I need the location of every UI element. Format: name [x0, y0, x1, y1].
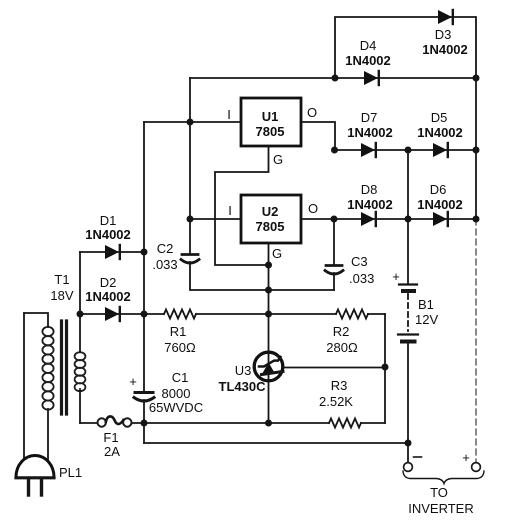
- diode D4 (inline on D4 row): [364, 71, 379, 85]
- svg-text:R1: R1: [170, 324, 187, 339]
- svg-text:18V: 18V: [50, 288, 73, 303]
- wire: from C2 bottom plate down and right along y=290 to C3: [190, 262, 334, 290]
- label T1: [54, 272, 69, 287]
- wire: U1 input row with stub to raw DC rail: [144, 121, 241, 123]
- svg-text:INVERTER: INVERTER: [408, 501, 474, 516]
- wire: U1 output right then down to D7 row: [301, 122, 335, 150]
- junction: secondary top / D1 branch: [77, 311, 84, 318]
- diode D8 (inline): [361, 212, 376, 226]
- U3 internal diode triangle: [262, 363, 275, 375]
- junction: U1/U2 ground tie node: [265, 262, 272, 269]
- fuse F1 body: [98, 416, 132, 426]
- value label 280ohm (R2): [326, 340, 358, 355]
- label D8: [361, 182, 378, 197]
- value label .033 (C3): [349, 271, 374, 286]
- battery B1 cell plates bottom: [398, 335, 418, 342]
- junction: D6 output / right rail: [473, 216, 480, 223]
- junction: D8/D6 node to battery: [405, 216, 412, 223]
- wire: right rail dash-dot segment down to + terminal: [475, 219, 477, 462]
- capacitor C1 electrolytic: [134, 393, 154, 402]
- value label 7805 (U2): [256, 219, 285, 234]
- svg-text:T1: T1: [54, 272, 69, 287]
- capacitor C3: [325, 266, 343, 275]
- junction: U1 input / vertical rail: [187, 119, 194, 126]
- U3 internal zener bar: [259, 357, 281, 367]
- pin label G (U2 ground): [272, 246, 282, 261]
- svg-text:U1: U1: [262, 109, 279, 124]
- diode D6 (inline): [433, 212, 448, 226]
- junction: U2 output / C3 branch: [331, 216, 338, 223]
- wire: U3 anode down to bottom row: [268, 380, 270, 423]
- svg-text:D3: D3: [435, 27, 452, 42]
- wire: raw DC rail x=144 (top half, down to C1 top plate): [143, 122, 145, 392]
- svg-text:D2: D2: [100, 275, 117, 290]
- label D3: [435, 27, 452, 42]
- wire: D4 row from (190,78) to right rail: [190, 77, 476, 79]
- transformer T1 secondary bottom lead: [79, 389, 81, 423]
- value label 1N4002 (D2): [85, 289, 131, 304]
- junction: battery minus / output minus: [405, 440, 412, 447]
- junction: divider tap node: [382, 364, 389, 371]
- svg-text:C2: C2: [157, 241, 174, 256]
- battery B1 bottom lead: [407, 344, 409, 443]
- label C3: [351, 254, 368, 269]
- svg-text:TL430C: TL430C: [219, 379, 267, 394]
- junction: ground net at R1/R2 row: [265, 311, 272, 318]
- svg-text:2.52K: 2.52K: [319, 394, 353, 409]
- wire: bottom return rail to battery minus: [144, 442, 408, 444]
- wire: plug left lead: [23, 313, 25, 462]
- polarity + label (B1): [392, 269, 400, 284]
- capacitor C3 branch wire from U2 output row down: [333, 219, 335, 264]
- junction: ground net crosses y=290 rail: [265, 287, 272, 294]
- svg-text:1N4002: 1N4002: [417, 197, 463, 212]
- value label TL430C (U3): [219, 379, 267, 394]
- transistor U3 shunt regulator circle: [254, 352, 283, 381]
- transformer T1 primary bottom lead: [47, 409, 49, 464]
- label R2: [333, 324, 350, 339]
- label TO (output): [430, 485, 448, 500]
- svg-text:D4: D4: [360, 38, 377, 53]
- svg-text:R2: R2: [333, 324, 350, 339]
- label D2: [100, 275, 117, 290]
- svg-text:760Ω: 760Ω: [164, 340, 196, 355]
- label B1: [418, 297, 434, 312]
- wire: U2 input row: [190, 218, 241, 220]
- pin label O (U2 output): [308, 201, 318, 216]
- value label 8000 (C1): [162, 386, 191, 401]
- pin label O (U1 output): [307, 105, 317, 120]
- svg-text:1N4002: 1N4002: [347, 197, 393, 212]
- junction: D7/D5 node: [405, 147, 412, 154]
- label R1: [170, 324, 187, 339]
- junction: D4 row / right rail: [473, 75, 480, 82]
- label D6: [430, 182, 447, 197]
- wire: bottom row y=423 from transformer to R3: [80, 422, 385, 424]
- value label 1N4002 (D6): [417, 197, 463, 212]
- label PL1: [59, 465, 82, 480]
- svg-text:8000: 8000: [162, 386, 191, 401]
- svg-text:1N4002: 1N4002: [417, 125, 463, 140]
- label R3: [331, 378, 348, 393]
- svg-text:D5: D5: [431, 110, 448, 125]
- svg-text:280Ω: 280Ω: [326, 340, 358, 355]
- pin label I (U1 input): [227, 107, 231, 122]
- svg-text:PL1: PL1: [59, 465, 82, 480]
- transformer T1 secondary winding: [75, 352, 86, 391]
- pin label I (U2 input): [228, 203, 232, 218]
- transformer T1 core bars: [62, 321, 67, 414]
- transformer T1 primary top lead: [24, 313, 48, 327]
- svg-text:1N4002: 1N4002: [85, 289, 131, 304]
- svg-text:C3: C3: [351, 254, 368, 269]
- junction: U2 input / input rail: [187, 216, 194, 223]
- polarity + label (C1): [129, 374, 137, 389]
- wire: D1 row y=252: [80, 251, 144, 253]
- junction: D1 output on raw rail: [141, 249, 148, 256]
- wire: ground net vertical from U2 G down to U3: [268, 243, 270, 353]
- plug PL1 prongs: [29, 479, 42, 495]
- svg-text:1N4002: 1N4002: [345, 53, 391, 68]
- value label 2A (F1): [104, 444, 120, 459]
- value label 1N4002 (D8): [347, 197, 393, 212]
- junction: raw DC rail on bottom row: [141, 420, 148, 427]
- wire: minus terminal drop: [407, 443, 409, 462]
- wire: U2 output / D8 / D6 row: [301, 218, 476, 220]
- diode D7 (inline): [361, 143, 376, 157]
- label INVERTER (output): [408, 501, 474, 516]
- resistor R3 zigzag: [329, 419, 361, 428]
- battery B1 cell plates top: [399, 285, 417, 292]
- diode D5 (inline): [433, 143, 448, 157]
- wire: U1 ground pin down, left and down to U2 ground node: [215, 146, 269, 265]
- value label 12V (B1): [415, 312, 438, 327]
- label U3: [235, 363, 252, 378]
- svg-text:+: +: [392, 269, 400, 284]
- wire: D2/R1/R2 row y=314: [80, 313, 385, 315]
- svg-text:G: G: [272, 246, 282, 261]
- plug PL1 body: [16, 456, 54, 478]
- diode D2 (inline): [105, 307, 120, 321]
- label C1: [172, 370, 189, 385]
- svg-text:D7: D7: [361, 110, 378, 125]
- value label 1N4002 (D5): [417, 125, 463, 140]
- brace under output terminals: [403, 471, 484, 484]
- wire: divider right side vertical x=385: [384, 314, 386, 423]
- transformer T1 secondary top lead: [79, 314, 81, 352]
- polarity - label (output minus): [414, 456, 422, 458]
- terminal: output minus circle: [404, 463, 413, 472]
- wire: left drop from D4 row to U1 input rail: [189, 78, 191, 122]
- label D1: [100, 213, 117, 228]
- value label 1N4002 (D4): [345, 53, 391, 68]
- svg-text:1N4002: 1N4002: [347, 125, 393, 140]
- svg-text:O: O: [307, 105, 317, 120]
- label D4: [360, 38, 377, 53]
- resistor R1 zigzag: [164, 310, 196, 319]
- battery B1 top lead: [407, 219, 409, 283]
- wire: battery feed rail x=408 from D7 row to D8 row: [407, 150, 409, 219]
- junction: U1 output / D7 row: [331, 147, 338, 154]
- wire: C3 bottom stub to y=290 rail: [333, 273, 335, 290]
- pin label G (U1 ground): [273, 152, 283, 167]
- junction: D2 output on raw rail: [141, 311, 148, 318]
- value label 760ohm (R1): [164, 340, 196, 355]
- diode D1 (inline): [105, 245, 120, 259]
- svg-text:12V: 12V: [415, 312, 438, 327]
- label U1: [262, 109, 279, 124]
- wire: D7/D5 row: [334, 149, 476, 151]
- U3 internal cathode line: [268, 352, 270, 382]
- wire: top rail loop from node (335,78) up across to right rail: [335, 17, 476, 78]
- value label 65WVDC (C1): [149, 400, 203, 415]
- value label 7805 (U1): [256, 124, 285, 139]
- junction: U3 anode on bottom row: [265, 420, 272, 427]
- svg-text:.033: .033: [349, 271, 374, 286]
- svg-text:U2: U2: [262, 204, 279, 219]
- svg-text:+: +: [129, 374, 137, 389]
- svg-text:C1: C1: [172, 370, 189, 385]
- value label 2.52K (R3): [319, 394, 353, 409]
- value label .033 (C2): [152, 257, 177, 272]
- value label 18V (T1): [50, 288, 73, 303]
- svg-text:I: I: [228, 203, 232, 218]
- resistor R2 zigzag: [336, 310, 368, 319]
- label F1: [103, 430, 118, 445]
- svg-text:O: O: [308, 201, 318, 216]
- wire: right rail solid segment (top to D6 row): [475, 78, 477, 219]
- value label 1N4002 (D1): [85, 227, 131, 242]
- value label 1N4002 (D7): [347, 125, 393, 140]
- wire: input rail x=190 from U1 input down to C2 top plate: [189, 122, 191, 253]
- terminal: output plus circle: [472, 463, 481, 472]
- svg-text:TO: TO: [430, 485, 448, 500]
- svg-text:U3: U3: [235, 363, 252, 378]
- wire: secondary left branch up to D1: [79, 252, 81, 314]
- svg-text:7805: 7805: [256, 124, 285, 139]
- svg-text:.033: .033: [152, 257, 177, 272]
- transformer T1 primary winding: [42, 327, 53, 410]
- diode D3 (inline on top rail): [438, 10, 453, 24]
- op-amp U1 regulator box: [241, 98, 301, 146]
- value label 1N4002 (D3): [422, 42, 468, 57]
- svg-text:D8: D8: [361, 182, 378, 197]
- label D5: [431, 110, 448, 125]
- polarity + label (output plus): [462, 450, 470, 465]
- svg-text:F1: F1: [103, 430, 118, 445]
- capacitor C2 (inline on input rail): [181, 255, 199, 264]
- svg-text:D1: D1: [100, 213, 117, 228]
- svg-text:2A: 2A: [104, 444, 120, 459]
- svg-text:I: I: [227, 107, 231, 122]
- svg-text:7805: 7805: [256, 219, 285, 234]
- U3 anode base bar: [262, 372, 284, 375]
- svg-text:D6: D6: [430, 182, 447, 197]
- junction: D4 row / top rail branch: [332, 75, 339, 82]
- label D7: [361, 110, 378, 125]
- svg-text:1N4002: 1N4002: [422, 42, 468, 57]
- svg-text:R3: R3: [331, 378, 348, 393]
- svg-text:G: G: [273, 152, 283, 167]
- label C2: [157, 241, 174, 256]
- svg-text:65WVDC: 65WVDC: [149, 400, 203, 415]
- wire: raw DC rail x=144 (below C1 to bottom corner): [143, 400, 145, 443]
- wire: U3 reference lead to divider tap: [283, 367, 385, 369]
- svg-text:+: +: [462, 450, 470, 465]
- svg-text:B1: B1: [418, 297, 434, 312]
- svg-text:1N4002: 1N4002: [85, 227, 131, 242]
- junction: D5 output / right rail: [473, 147, 480, 154]
- battery B1 dashed middle: [407, 294, 409, 331]
- label U2: [262, 204, 279, 219]
- op-amp U2 regulator box: [241, 195, 301, 243]
